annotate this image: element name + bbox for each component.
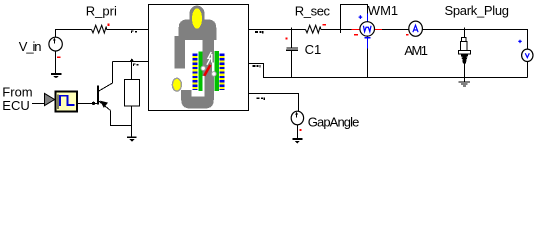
svg-text:Spark_Plug: Spark_Plug bbox=[445, 3, 509, 18]
svg-text:AM1: AM1 bbox=[404, 43, 427, 58]
svg-text:ECU: ECU bbox=[2, 98, 29, 113]
svg-text:V_in: V_in bbox=[19, 39, 41, 54]
svg-text:R_pri: R_pri bbox=[86, 3, 117, 18]
svg-text:GapAngle: GapAngle bbox=[308, 114, 359, 129]
svg-text:WM1: WM1 bbox=[368, 3, 398, 18]
svg-text:C1: C1 bbox=[305, 42, 322, 57]
svg-text:R_sec: R_sec bbox=[295, 3, 331, 18]
